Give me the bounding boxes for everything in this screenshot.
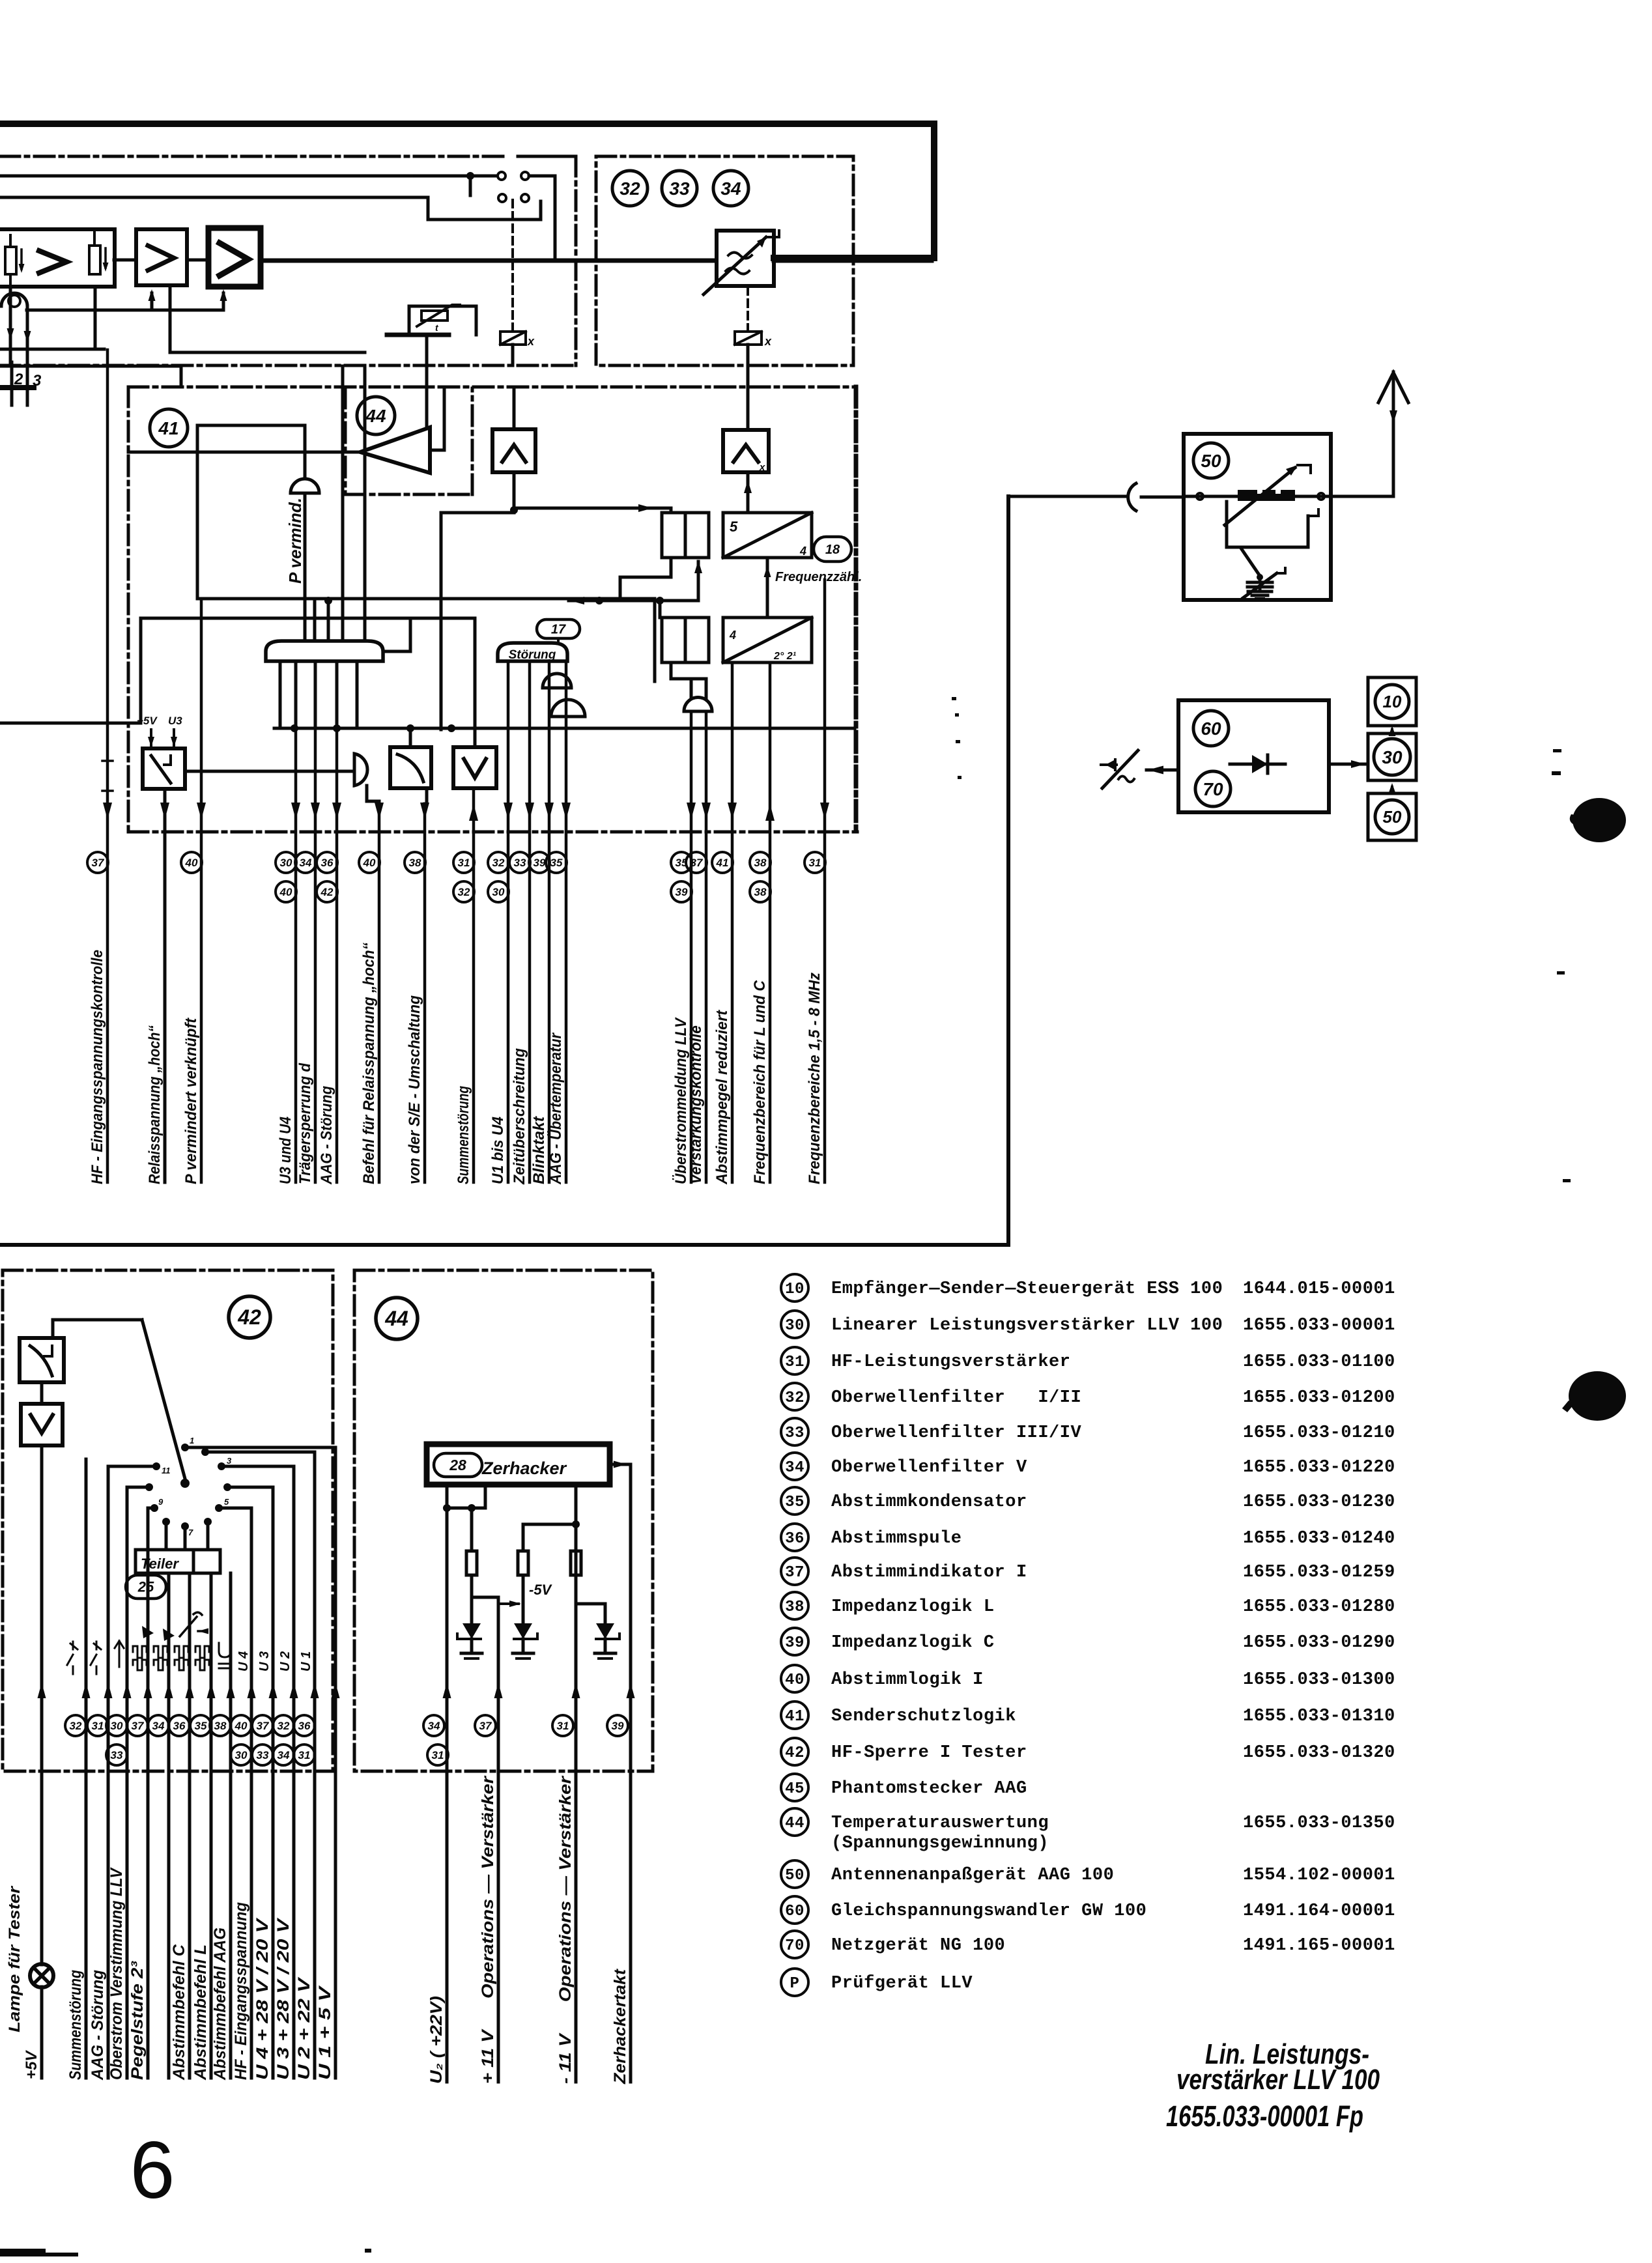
wire dome feed from top rail	[304, 425, 307, 479]
svg-text:Temperaturauswertung: Temperaturauswertung	[831, 1814, 1049, 1833]
svg-text:38: 38	[409, 857, 421, 869]
svg-text:Pegelstufe 2³: Pegelstufe 2³	[128, 1961, 147, 2080]
svg-text:44: 44	[365, 406, 386, 426]
temperature sensor block	[387, 333, 449, 337]
svg-text:Lampe für Tester: Lampe für Tester	[6, 1885, 23, 2032]
tunable harmonic filter box	[717, 231, 774, 286]
svg-text:41: 41	[716, 857, 729, 869]
small specks right margin	[1553, 749, 1561, 752]
ground D3	[595, 1652, 616, 1655]
svg-text:32: 32	[70, 1720, 82, 1732]
svg-text:34: 34	[278, 1749, 290, 1761]
svg-text:U 3 + 28 V / 20 V: U 3 + 28 V / 20 V	[274, 1917, 292, 2080]
svg-text:40: 40	[185, 857, 198, 869]
svg-text:Phantomstecker AAG: Phantomstecker AAG	[831, 1779, 1027, 1799]
svg-text:AAG - Übertemperatur: AAG - Übertemperatur	[547, 1032, 565, 1184]
parts list row 33 Oberwellenfilter III/IV	[781, 1418, 808, 1445]
wire/signal line box42: AAG - Störung	[107, 1466, 110, 2078]
svg-text:30: 30	[235, 1749, 248, 1761]
bus wire y=922	[569, 599, 698, 603]
wire/signal line: Abstimmpegel reduziert	[731, 662, 734, 1182]
parts list row 39 Impedanzlogik C	[781, 1628, 808, 1655]
relay coil K1 with x	[511, 200, 514, 331]
svg-text:60: 60	[785, 1903, 805, 1920]
svg-text:Summenstörung: Summenstörung	[455, 1086, 472, 1184]
svg-text:HF - Eingangsspannung: HF - Eingangsspannung	[232, 1902, 250, 2080]
unit square 10	[1368, 677, 1416, 726]
rotary switch contacts	[152, 1462, 160, 1470]
svg-text:34: 34	[785, 1459, 805, 1477]
wire/signal line box44: + 11 V&#160;&#160;&#160;&#160;&#160;&#160;Operations &#8212; Verstärker	[497, 1771, 500, 2082]
svg-text:41: 41	[158, 418, 178, 438]
svg-text:37: 37	[92, 857, 105, 869]
ground D2	[513, 1652, 534, 1655]
svg-text:Empfänger—Sender—Steuergerät E: Empfänger—Sender—Steuergerät ESS 100	[831, 1279, 1223, 1299]
op-amp triangle (temperature)	[360, 427, 430, 473]
wire/signal line box44: Zerhackertakt	[629, 1771, 633, 2082]
svg-text:+5V: +5V	[23, 2050, 40, 2079]
wire to antenna coupler	[1008, 495, 1126, 498]
parts list row 60 Gleichspannungswandler GW 100	[781, 1896, 808, 1924]
svg-text:42: 42	[320, 886, 334, 898]
dash-dot box: harmonic filters 32/33/34	[596, 156, 853, 365]
selector drive wire and diagonal	[53, 1320, 142, 1338]
bottom edge smudges	[0, 2249, 46, 2256]
parts list row 36 Abstimmspule	[781, 1524, 808, 1551]
wire/signal line box42: Abstimmbefehl AAG	[229, 1573, 233, 2078]
parts list row 70 Netzgerät NG 100	[781, 1931, 808, 1958]
svg-text:+ 11 V Operations — Verst: + 11 V Operations — Verstärker	[479, 1776, 497, 2084]
wire from V2 bottom across	[170, 287, 365, 352]
semicircle gate	[354, 754, 367, 786]
wire/signal line: Überstrommeldung LLV	[690, 711, 693, 1182]
dash-dot box 44 Temperaturauswertung	[354, 1270, 653, 1771]
parts list row 10 Empfänger&#8212;Sender&#8212;Steuergerät ESS 100	[781, 1274, 808, 1302]
svg-text:10: 10	[1383, 692, 1402, 711]
svg-text:Abstimmspule: Abstimmspule	[831, 1529, 961, 1548]
AGC detector dome	[1, 293, 27, 306]
svg-text:Impedanzlogik C: Impedanzlogik C	[831, 1633, 995, 1653]
svg-text:Zerhackertakt: Zerhackertakt	[611, 1968, 629, 2085]
svg-text:38: 38	[754, 886, 767, 898]
connector pins 2 and 3	[10, 362, 14, 390]
svg-text:4: 4	[799, 545, 806, 558]
resistor R1	[466, 1551, 477, 1575]
V box in 42	[21, 1404, 63, 1445]
wire/signal line: Zeitüberschreitung	[528, 661, 532, 1182]
wire/signal line box42: U 1 + 5 V	[334, 1447, 337, 2078]
converter interface boxes bottom pair	[662, 618, 685, 662]
svg-text:44: 44	[384, 1307, 408, 1330]
wire/signal line: Summenstörung	[472, 788, 476, 1182]
small dome gates under Stoerung	[543, 674, 571, 688]
svg-text:- 11 V Operations — Verst: - 11 V Operations — Verstärker	[556, 1776, 575, 2084]
svg-text:Abstimmlogik I: Abstimmlogik I	[831, 1670, 984, 1690]
wire/signal line: U3 und U4	[294, 728, 298, 1182]
svg-text:Summenstörung: Summenstörung	[66, 1970, 85, 2080]
svg-text:Antennenanpaßgerät AAG 100: Antennenanpaßgerät AAG 100	[831, 1866, 1114, 1885]
OR box v	[453, 747, 496, 788]
AGC feedback line	[27, 309, 223, 312]
wire from temp sensor down to amplifier 44	[425, 335, 429, 429]
middle branch	[575, 1485, 578, 1524]
svg-text:31: 31	[557, 1720, 569, 1732]
label circle 70	[1195, 771, 1231, 806]
switch loop wires right	[185, 1446, 335, 1449]
parts list row 45 Phantomstecker AAG	[781, 1774, 808, 1801]
svg-text:35: 35	[195, 1720, 207, 1732]
svg-text:3: 3	[227, 1456, 232, 1466]
svg-text:U₂ ( +22V): U₂ ( +22V)	[427, 1996, 446, 2084]
parts list row 38 Impedanzlogik L	[781, 1592, 808, 1619]
arrow 50 to 30	[1391, 787, 1393, 793]
svg-text:U 4 + 28 V / 20 V: U 4 + 28 V / 20 V	[253, 1917, 272, 2080]
lamp for tester	[30, 1964, 53, 1987]
svg-text:Abstimmbefehl C: Abstimmbefehl C	[170, 1944, 188, 2081]
wire/signal line: Relaisspannung &#8222;hoch&#8220;	[160, 803, 169, 819]
svg-text:37: 37	[785, 1564, 805, 1582]
ground D1	[461, 1652, 482, 1655]
svg-text:32: 32	[492, 857, 505, 869]
relay box in 42	[20, 1338, 64, 1382]
wire: control line y=303 loop	[0, 197, 541, 220]
dome gate right (Ueberstrom)	[684, 698, 712, 712]
parts list row 32 Oberwellenfilter&#160;&#160;&#160;I/II	[781, 1383, 808, 1410]
svg-text:34: 34	[152, 1720, 165, 1732]
wire/signal line: AAG - Störung	[335, 728, 339, 1182]
input arrow	[1146, 769, 1178, 772]
svg-text:Oberstrom Verstimmung LLV: Oberstrom Verstimmung LLV	[107, 1867, 126, 2080]
svg-text:25: 25	[137, 1579, 154, 1595]
svg-text:1655.033-01310: 1655.033-01310	[1243, 1707, 1395, 1726]
resistor R in V1	[5, 247, 16, 274]
svg-text:34: 34	[428, 1720, 440, 1732]
wire/signal line box42: U 4 + 28 V / 20 V	[272, 1487, 275, 2078]
transistor symbol in 42	[180, 1612, 202, 1636]
bypass loop and switch	[1227, 502, 1308, 547]
small specks mid page	[952, 697, 956, 700]
label circle 33	[662, 171, 697, 206]
svg-text:17: 17	[551, 623, 566, 637]
svg-text:Frequenzbereich für L und C: Frequenzbereich für L und C	[751, 980, 769, 1184]
svg-text:1: 1	[190, 1436, 194, 1445]
svg-text:40: 40	[235, 1720, 248, 1732]
svg-text:U1 bis U4: U1 bis U4	[489, 1117, 507, 1184]
frequency converter box 2	[723, 618, 812, 662]
threshold box high	[492, 429, 535, 472]
svg-text:Linearer Leistungsverstärker L: Linearer Leistungsverstärker LLV 100	[831, 1316, 1223, 1335]
wire gate to bus	[383, 618, 410, 651]
svg-text:1655.033-01200: 1655.033-01200	[1243, 1388, 1395, 1408]
svg-text:P vermind.: P vermind.	[285, 498, 305, 584]
+5V U3 feeds	[150, 730, 152, 748]
svg-text:31: 31	[298, 1749, 311, 1761]
svg-text:P vermindert verknüpft: P vermindert verknüpft	[182, 1018, 200, 1184]
wire V2 to V3	[187, 259, 208, 262]
svg-text:30: 30	[280, 857, 292, 869]
parts list row 37 Abstimmindikator I	[781, 1558, 808, 1585]
svg-text:2° 2¹: 2° 2¹	[773, 651, 797, 662]
wire: resistor drop lines to connector	[9, 287, 12, 363]
svg-text:Oberwellenfilter V: Oberwellenfilter V	[831, 1458, 1027, 1477]
svg-text:39: 39	[785, 1634, 805, 1652]
svg-text:U 3: U 3	[257, 1651, 272, 1672]
svg-text:36: 36	[298, 1720, 311, 1732]
svg-text:33: 33	[514, 857, 526, 869]
svg-text:70: 70	[785, 1937, 805, 1955]
amplifier glyph in V1	[39, 251, 66, 273]
inner wiring box corner	[197, 424, 305, 427]
svg-text:1644.015-00001: 1644.015-00001	[1243, 1279, 1395, 1299]
svg-text:50: 50	[1383, 807, 1402, 827]
svg-text:32: 32	[458, 886, 470, 898]
horizontal bus y=1118	[274, 727, 855, 730]
wire: dash-dot top of filter box 31	[0, 155, 507, 158]
wire/signal line: von der S/E - Umschaltung	[423, 804, 427, 1182]
svg-text:39: 39	[534, 857, 546, 869]
label circle 34	[713, 171, 748, 206]
svg-text:1655.033-01210: 1655.033-01210	[1243, 1423, 1395, 1443]
svg-text:34: 34	[720, 178, 741, 199]
wire: control line y=270 with relay contacts	[0, 175, 496, 178]
svg-text:U3: U3	[168, 715, 182, 727]
svg-text:Blinktakt: Blinktakt	[530, 1116, 548, 1184]
wire P vermind	[304, 493, 307, 641]
parts list row 41 Senderschutzlogik	[781, 1701, 808, 1729]
amplifier stage V2	[136, 229, 187, 285]
svg-text:42: 42	[237, 1305, 261, 1329]
svg-text:1655.033-01300: 1655.033-01300	[1243, 1670, 1395, 1690]
wire relay output right	[185, 770, 354, 773]
dash-dot right edge of filter box 31	[575, 156, 578, 365]
svg-text:4: 4	[729, 629, 736, 642]
svg-text:1655.033-01220: 1655.033-01220	[1243, 1458, 1395, 1477]
svg-text:Oberwellenfilter III/IV: Oberwellenfilter III/IV	[831, 1423, 1081, 1443]
punch hole blob lower	[1569, 1371, 1626, 1421]
svg-text:AAG - Störung: AAG - Störung	[318, 1086, 335, 1185]
parts list row 34 Oberwellenfilter V	[781, 1453, 808, 1480]
antenna	[1392, 372, 1395, 496]
svg-text:U 1: U 1	[299, 1651, 313, 1672]
wire/signal line: Frequenzbereiche 1,5 - 8 MHz	[823, 580, 827, 1182]
relay switch box U3	[143, 748, 185, 789]
svg-text:Zerhacker: Zerhacker	[481, 1459, 567, 1478]
parts list row 42 HF-Sperre I Tester	[781, 1738, 808, 1765]
svg-text:37: 37	[479, 1720, 492, 1732]
wire: thick RF output border path	[0, 124, 934, 258]
svg-text:1655.033-01230: 1655.033-01230	[1243, 1492, 1395, 1512]
svg-text:36: 36	[785, 1530, 805, 1548]
svg-text:(Spannungsgewinnung): (Spannungsgewinnung)	[831, 1834, 1049, 1853]
svg-text:31: 31	[92, 1720, 104, 1732]
lamp output line	[40, 1445, 44, 1965]
label circle 32	[612, 171, 648, 206]
tag 18	[814, 537, 851, 562]
svg-text:70: 70	[1203, 779, 1223, 799]
svg-text:5: 5	[730, 519, 738, 535]
wire threshold output down and across	[513, 472, 516, 513]
svg-text:33: 33	[111, 1749, 123, 1761]
svg-text:60: 60	[1201, 719, 1221, 739]
AC/DC symbol	[1102, 750, 1138, 788]
wire/signal line: Blinktakt	[548, 661, 551, 1182]
wires into Teiler	[165, 1522, 168, 1550]
wire/signal line box42: Oberstrom Verstimmung LLV	[126, 1487, 129, 2078]
wire/signal line box42: HF - Eingangsspannung	[250, 1508, 253, 2078]
wire/signal line box42: Abstimmbefehl C	[188, 1573, 192, 2078]
wire/signal line box42: U 3 + 28 V / 20 V	[292, 1466, 296, 2078]
wire from harmonic filter to right border	[774, 259, 932, 263]
dash-dot box 42 HF-Sperre I Tester	[3, 1270, 333, 1771]
wire interface to bus	[670, 558, 673, 577]
svg-text:35: 35	[550, 857, 563, 869]
svg-text:Frequenzzähl.: Frequenzzähl.	[775, 570, 862, 584]
wire relay output down (Relaisspannung)	[164, 789, 167, 1182]
svg-text:Zeitüberschreitung: Zeitüberschreitung	[511, 1048, 528, 1185]
dash-dot box 41 Senderschutzlogik	[127, 387, 130, 831]
amplifier stage V1 (box with resistors)	[0, 229, 115, 287]
svg-text:9: 9	[158, 1497, 164, 1507]
wire/signal line: Befehl für Relaisspannung &#8222;hoch&#8220;	[378, 801, 381, 1182]
output arrow to LLV	[1329, 763, 1365, 766]
label circle 50	[1193, 443, 1229, 478]
relay coil K2 with x	[747, 287, 749, 331]
parts list row 30 Linearer Leistungsverstärker LLV 100	[781, 1311, 808, 1338]
Zerhacker bottom wires	[446, 1485, 449, 1771]
svg-text:1655.033-01100: 1655.033-01100	[1243, 1352, 1395, 1372]
svg-text:Oberwellenfilter I/II: Oberwellenfilter I/II	[831, 1388, 1081, 1408]
svg-text:5: 5	[224, 1497, 229, 1507]
wire pair from output contacts down	[341, 366, 345, 641]
svg-text:Abstimmkondensator: Abstimmkondensator	[831, 1492, 1027, 1512]
wire/signal line box42: unlabelled	[167, 1573, 171, 2078]
U= symbol	[219, 1643, 231, 1657]
resistor R2 in V1	[89, 246, 100, 274]
wire/signal line: AAG - Übertemperatur	[565, 661, 568, 1182]
parts list row 44 Temperaturauswertung	[781, 1808, 808, 1836]
svg-text:-5V: -5V	[529, 1582, 553, 1598]
punch hole blob upper	[1573, 798, 1626, 842]
svg-text:39: 39	[612, 1720, 624, 1732]
svg-text:1655.033-00001 Fp: 1655.033-00001 Fp	[1166, 2099, 1363, 2133]
connector arc	[1128, 483, 1136, 511]
gate output stubs	[279, 661, 282, 728]
label circle 60	[1193, 711, 1229, 746]
svg-text:U 4: U 4	[236, 1651, 251, 1672]
svg-text:31: 31	[785, 1354, 805, 1371]
diode inside	[1230, 763, 1285, 766]
svg-text:Abstimmbefehl AAG: Abstimmbefehl AAG	[211, 1928, 229, 2081]
svg-text:1655.033-01290: 1655.033-01290	[1243, 1633, 1395, 1653]
square wave symbols	[133, 1646, 147, 1658]
unit square 30	[1368, 733, 1416, 780]
wire/signal line box44: - 11 V&#160;&#160;&#160;&#160;&#160;&#160;Operations &#8212; Verstärker	[575, 1771, 578, 2082]
wire horizontal y=919	[315, 597, 655, 601]
label circle 41	[150, 409, 188, 447]
arrows on box44 lines	[443, 1683, 451, 1698]
diode D3 (zener)	[596, 1623, 614, 1639]
variable capacitor to ground	[1259, 577, 1262, 582]
svg-text:40: 40	[785, 1672, 805, 1689]
svg-text:40: 40	[279, 886, 292, 898]
Teiler box	[135, 1550, 220, 1573]
svg-text:HF - Eingangsspannungskontroll: HF - Eingangsspannungskontrolle	[89, 950, 106, 1184]
label circle 42	[229, 1296, 270, 1338]
svg-text:38: 38	[754, 857, 767, 869]
antenna coupler box 50	[1184, 434, 1331, 600]
wire/signal line: U1 bis U4	[507, 661, 510, 1182]
right branch	[575, 1524, 578, 1771]
svg-text:36: 36	[321, 857, 334, 869]
outer box of LLV 100 block	[0, 496, 1008, 1245]
svg-text:7: 7	[188, 1528, 193, 1537]
svg-text:HF-Sperre I Tester: HF-Sperre I Tester	[831, 1743, 1027, 1763]
converter block 60/70	[1178, 700, 1329, 812]
svg-text:1554.102-00001: 1554.102-00001	[1243, 1866, 1395, 1885]
svg-text:11: 11	[162, 1466, 171, 1475]
svg-text:Gleichspannungswandler GW 100: Gleichspannungswandler GW 100	[831, 1901, 1146, 1921]
wire y=536 to HF control line	[0, 348, 104, 351]
svg-text:10: 10	[785, 1281, 805, 1298]
wire/signal line box42: Abstimmbefehl L	[210, 1573, 213, 2078]
svg-text:32: 32	[785, 1389, 805, 1407]
tick marks on HF line	[102, 760, 113, 762]
svg-text:Verstärkungskontrolle: Verstärkungskontrolle	[687, 1025, 705, 1184]
svg-text:HF-Leistungsverstärker: HF-Leistungsverstärker	[831, 1352, 1070, 1372]
svg-text:37: 37	[691, 857, 704, 869]
wire/signal line box42: Summenstörung	[85, 1459, 88, 2078]
parts list row 40 Abstimmlogik I	[781, 1665, 808, 1692]
svg-text:37: 37	[257, 1720, 270, 1732]
svg-text:2: 2	[14, 371, 23, 388]
wire y=562	[0, 366, 181, 387]
gate dome above main AND gate	[291, 479, 319, 493]
label circle 44 (bottom)	[376, 1298, 418, 1339]
wire/signal line box44: U&#8322; ( +22V)	[446, 1771, 449, 2082]
svg-text:Abstimmindikator I: Abstimmindikator I	[831, 1563, 1027, 1582]
svg-text:45: 45	[785, 1780, 805, 1798]
main AND gate	[266, 641, 383, 661]
resistor R3	[571, 1551, 581, 1575]
Zerhacker output wire	[610, 1464, 631, 1771]
svg-text:P: P	[790, 1975, 800, 1993]
wire/signal line box42: Pegelstufe 2&#179;	[147, 1508, 150, 2078]
svg-text:1655.033-01280: 1655.033-01280	[1243, 1597, 1395, 1617]
diode D1 (zener)	[470, 1597, 474, 1623]
svg-text:U 2: U 2	[278, 1651, 292, 1672]
frequency converter box 1	[723, 513, 812, 558]
svg-text:39: 39	[676, 886, 688, 898]
svg-text:6: 6	[130, 2126, 175, 2215]
wire V1 to V2	[114, 259, 136, 262]
svg-text:Netzgerät NG 100: Netzgerät NG 100	[831, 1936, 1005, 1956]
svg-text:33: 33	[785, 1425, 805, 1442]
ground symbol in box 50	[1248, 590, 1272, 593]
svg-text:1655.033-01320: 1655.033-01320	[1243, 1743, 1395, 1763]
svg-text:U 2 + 22 V: U 2 + 22 V	[295, 1976, 313, 2080]
unit square 50	[1368, 793, 1416, 840]
label circle 44	[357, 397, 395, 434]
svg-text:1655.033-01240: 1655.033-01240	[1243, 1529, 1395, 1548]
svg-text:verstärker LLV 100: verstärker LLV 100	[1176, 2064, 1380, 2096]
svg-text:Abstimmpegel reduziert: Abstimmpegel reduziert	[713, 1010, 731, 1185]
svg-text:40: 40	[363, 857, 376, 869]
switch loop wires left	[108, 1465, 156, 1468]
svg-text:33: 33	[669, 178, 690, 199]
wire into gate top	[327, 599, 330, 641]
svg-text:34: 34	[300, 857, 312, 869]
wire/signal line: Verstärkungskontrolle	[705, 711, 708, 1182]
